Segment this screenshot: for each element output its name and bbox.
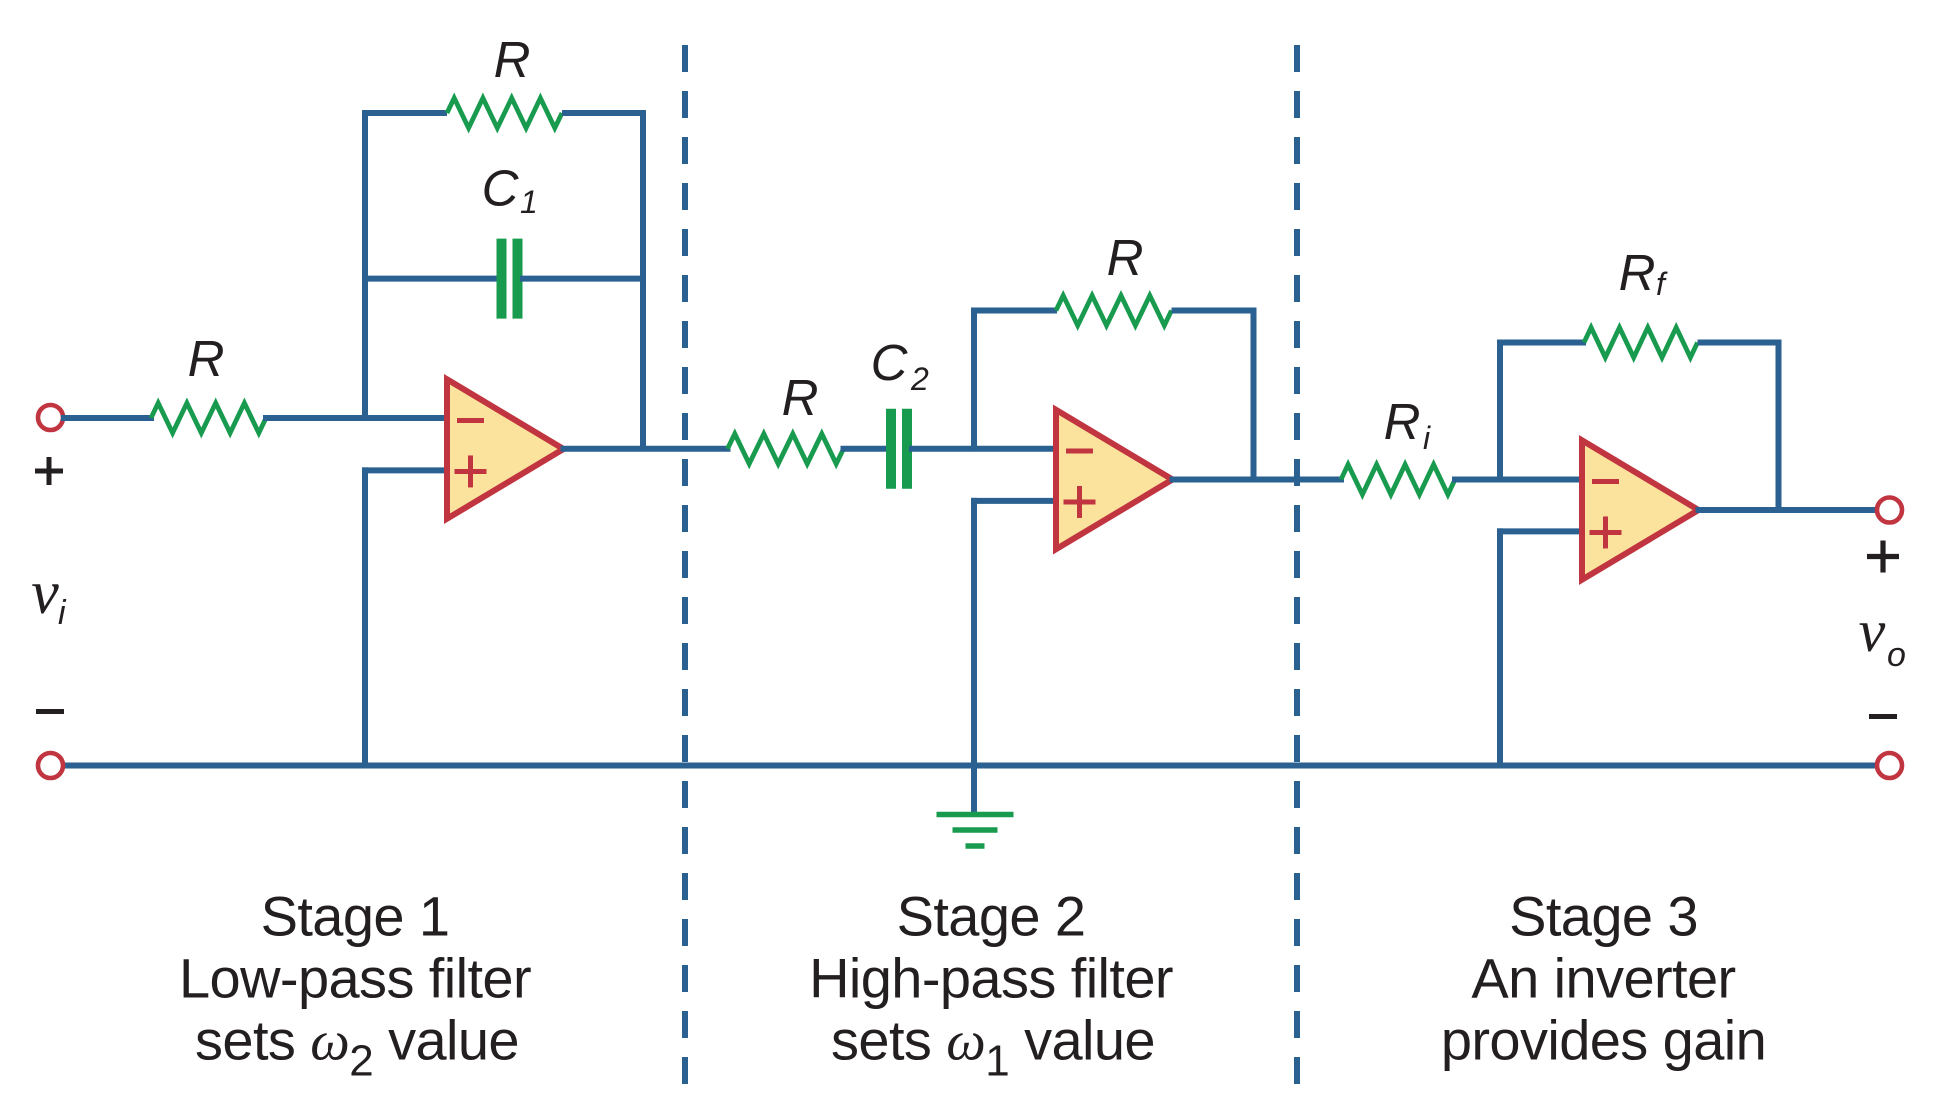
- wire U2 + input down through rail to ground: [971, 501, 977, 812]
- resistor R (stage 1 input): [151, 403, 266, 433]
- wire U3 noninverting input: [1500, 528, 1586, 534]
- svg-text:Stage 2: Stage 2: [897, 885, 1086, 948]
- svg-text:High-pass filter: High-pass filter: [809, 947, 1173, 1010]
- op-amp U1 plus sign: [455, 469, 487, 474]
- svg-text:v: v: [1859, 598, 1886, 664]
- capacitor C1: [497, 239, 507, 319]
- resistor R (stage 2 feedback): [1056, 296, 1172, 326]
- svg-text:sets ω2 value: sets ω2 value: [195, 1009, 519, 1086]
- wire U3 + input down to ground rail: [1497, 531, 1503, 765]
- svg-text:i: i: [1423, 420, 1431, 456]
- wire U2 noninverting input: [974, 498, 1060, 504]
- minus sign (input polarity): [36, 709, 64, 714]
- op-amp U2: [1056, 410, 1173, 550]
- resistor Ri (stage 3 input): [1341, 465, 1455, 495]
- svg-text:f: f: [1656, 266, 1668, 302]
- wire node feedback left vertical (stage 1): [365, 113, 447, 418]
- dashed separator line 2 (stage 2 / stage 3): [1294, 45, 1300, 1090]
- svg-text:Low-pass filter: Low-pass filter: [179, 947, 531, 1010]
- wire feedback top right + right vertical (stage 1): [562, 113, 643, 449]
- resistor R (stage 1 feedback): [447, 98, 562, 128]
- svg-text:R: R: [1107, 229, 1144, 286]
- wire U1 + input down to ground rail: [362, 470, 368, 765]
- svg-text:C: C: [871, 334, 909, 391]
- svg-text:Stage 3: Stage 3: [1509, 885, 1698, 948]
- wire C2 to op-amp U2 inverting input: [912, 446, 1060, 452]
- svg-text:sets ω1 value: sets ω1 value: [831, 1009, 1155, 1086]
- svg-text:An inverter: An inverter: [1471, 947, 1735, 1010]
- wire U2 output to stage 3: [1173, 477, 1342, 483]
- svg-text:i: i: [58, 594, 67, 632]
- wire R to C2: [844, 446, 887, 452]
- svg-text:R: R: [1384, 393, 1421, 450]
- wire U3 output to output terminal: [1699, 507, 1878, 513]
- wire feedback left vertical (stage 3): [1500, 343, 1586, 480]
- svg-text:R: R: [1619, 244, 1656, 301]
- wire feedback left vertical (stage 2): [974, 311, 1057, 449]
- ground symbol (stage 2): [937, 812, 1014, 818]
- svg-text:provides gain: provides gain: [1441, 1009, 1766, 1072]
- svg-text:R: R: [188, 330, 225, 387]
- svg-text:C: C: [482, 160, 520, 217]
- plus sign (input polarity): [35, 469, 63, 474]
- input terminal (top, +): [38, 405, 63, 430]
- svg-text:o: o: [1887, 636, 1906, 674]
- svg-text:1: 1: [520, 184, 538, 220]
- op-amp U3 minus sign: [1592, 479, 1619, 484]
- svg-text:v: v: [31, 559, 59, 627]
- wire bottom common rail: [64, 763, 1876, 769]
- output terminal (top, +): [1877, 498, 1902, 523]
- plus sign (output polarity): [1867, 554, 1899, 559]
- svg-text:2: 2: [910, 361, 929, 397]
- op-amp U1: [447, 379, 564, 519]
- op-amp U3: [1582, 440, 1699, 580]
- wire input terminal to R: [64, 415, 151, 421]
- wire Ri to op-amp U3 inverting input: [1455, 477, 1586, 483]
- op-amp U3 plus sign: [1590, 530, 1622, 535]
- input terminal (bottom, -): [38, 753, 63, 778]
- wire C1 row right: [523, 276, 643, 282]
- minus sign (output polarity): [1869, 714, 1897, 719]
- op-amp U2 plus sign: [1064, 499, 1096, 504]
- op-amp U2 minus sign: [1066, 449, 1093, 454]
- svg-text:R: R: [782, 369, 819, 426]
- dashed separator line 1 (stage 1 / stage 2): [682, 45, 688, 1090]
- wire R to op-amp U1 inverting input: [266, 415, 451, 421]
- wire feedback top right + right vertical (stage 2): [1172, 311, 1254, 480]
- svg-text:Stage 1: Stage 1: [261, 885, 450, 948]
- resistor Rf (stage 3 feedback): [1584, 328, 1698, 358]
- resistor R (stage 2 series): [728, 434, 844, 464]
- svg-text:R: R: [494, 31, 531, 88]
- output terminal (bottom, -): [1877, 753, 1902, 778]
- wire U1 noninverting input: [365, 467, 451, 473]
- wire C1 row left: [365, 276, 498, 282]
- op-amp U1 minus sign: [457, 418, 484, 423]
- wire U1 output to stage 2: [564, 446, 728, 452]
- wire feedback top right + right vertical (stage 3): [1698, 343, 1779, 511]
- capacitor C2: [886, 409, 896, 489]
